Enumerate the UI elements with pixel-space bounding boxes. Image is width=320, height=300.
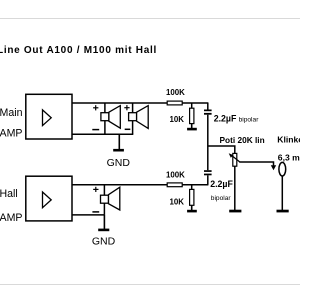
capacitor 2.2uF (Hall) bbox=[204, 146, 212, 185]
wire Main + bus bbox=[72, 102, 208, 104]
wire Hall - output bbox=[72, 214, 104, 216]
polarity + LS2 bbox=[124, 105, 129, 110]
svg-text:Klinkenbuchse: Klinkenbuchse bbox=[277, 134, 300, 144]
svg-text:6,3 mm: 6,3 mm bbox=[278, 152, 300, 162]
ground (poti) bbox=[229, 210, 241, 213]
svg-text:Hall: Hall bbox=[0, 188, 18, 200]
svg-text:100K: 100K bbox=[166, 171, 185, 180]
wire node to 10K (Hall) bbox=[191, 185, 193, 190]
svg-text:AMP: AMP bbox=[0, 212, 22, 224]
resistor 100K (Main) bbox=[167, 101, 182, 105]
op-amp block U2 Hall AMP bbox=[26, 176, 72, 221]
potentiometer 20K bbox=[229, 153, 240, 210]
resistor 10K (Hall) bbox=[190, 189, 194, 205]
wire node to 10K (Main) bbox=[191, 103, 193, 108]
wire mix node to poti bbox=[208, 146, 235, 153]
polarity + LS3 bbox=[93, 187, 98, 192]
polarity + LS1 bbox=[93, 105, 98, 110]
svg-text:10K: 10K bbox=[170, 115, 185, 124]
ground (10K Main) bbox=[187, 124, 197, 131]
ground (jack) bbox=[277, 210, 289, 213]
svg-text:10K: 10K bbox=[170, 198, 185, 207]
svg-text:2.2µF: 2.2µF bbox=[210, 179, 233, 189]
svg-text:2.2µF: 2.2µF bbox=[214, 113, 237, 123]
ground GND (Hall speaker) bbox=[98, 215, 109, 231]
svg-text:AMP: AMP bbox=[0, 128, 22, 140]
polarity - LS1 bbox=[92, 129, 99, 131]
op-amp block U1 Main AMP bbox=[26, 94, 72, 139]
svg-text:GND: GND bbox=[107, 157, 131, 169]
resistor 100K (Hall) bbox=[167, 183, 182, 187]
svg-text:Poti 20K lin: Poti 20K lin bbox=[220, 135, 265, 145]
resistor 10K (Main) bbox=[190, 108, 194, 123]
svg-text:GND: GND bbox=[92, 236, 116, 248]
wire wiper to jack with arrow bbox=[239, 162, 276, 170]
wire Hall + bus bbox=[72, 184, 208, 186]
capacitor 2.2uF (Main) bbox=[204, 103, 212, 146]
svg-text:Main: Main bbox=[0, 107, 23, 119]
svg-text:bipolar: bipolar bbox=[211, 195, 232, 202]
polarity - LS2 bbox=[125, 128, 131, 130]
polarity - LS3 bbox=[92, 211, 99, 213]
svg-text:100K: 100K bbox=[166, 88, 185, 97]
svg-text:bipolar: bipolar bbox=[239, 117, 260, 124]
ground (10K Hall) bbox=[187, 205, 197, 212]
wire Main - bus bbox=[72, 133, 133, 135]
jack bush (Klinkenbuchse) bbox=[279, 162, 286, 210]
speaker LS1 (Main) bbox=[101, 103, 120, 134]
speaker LS2 (Main) bbox=[129, 103, 149, 134]
svg-text:Line Out A100 / M100 mit Hall: Line Out A100 / M100 mit Hall bbox=[0, 45, 157, 56]
ground GND (Main speakers) bbox=[113, 134, 124, 151]
speaker LS3 (Hall) bbox=[101, 185, 120, 215]
